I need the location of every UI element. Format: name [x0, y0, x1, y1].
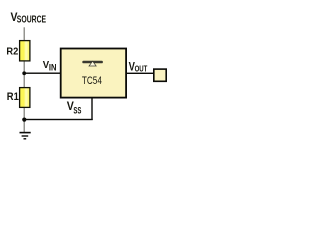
svg-text:OUT: OUT: [135, 65, 148, 74]
svg-text:SOURCE: SOURCE: [17, 15, 46, 26]
svg-text:IN: IN: [49, 63, 57, 73]
svg-text:SS: SS: [73, 105, 81, 116]
svg-text:R2: R2: [6, 47, 18, 58]
svg-text:R1: R1: [7, 91, 19, 103]
svg-text:TC54: TC54: [82, 75, 102, 87]
